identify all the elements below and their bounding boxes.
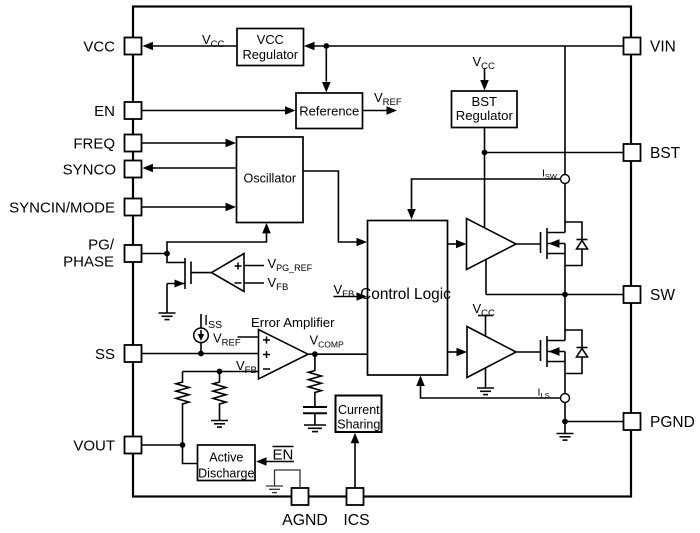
wire Control Logic to high-side driver (448, 243, 457, 245)
pin SYNCIN/MODE (9, 199, 141, 217)
current sense ILS circle (561, 394, 570, 403)
arrow EN-bar into Active Discharge right edge (256, 457, 267, 466)
wire capacitor to ground (314, 413, 316, 425)
pin BST (624, 144, 681, 162)
wire PGND node to PGND pin (565, 421, 624, 423)
arrow into Reference top (322, 82, 331, 93)
svg-text:Error Amplifier: Error Amplifier (251, 315, 335, 330)
minus mark PG comparator (235, 282, 242, 284)
pin EN (94, 102, 141, 120)
node junction VFB divider (217, 369, 223, 375)
svg-text:Active: Active (209, 451, 243, 465)
overline EN-bar (273, 446, 294, 448)
svg-text:VOUT: VOUT (73, 438, 115, 455)
pin FREQ (73, 135, 141, 153)
wire VOUT pin to feedback node (142, 444, 183, 446)
svg-text:Control Logic: Control Logic (360, 286, 451, 303)
svg-text:Sharing: Sharing (337, 418, 380, 432)
op-amp PG comparator (points left) (212, 254, 245, 292)
block Control Logic (360, 221, 451, 376)
node junction VIN/Reference (323, 43, 329, 49)
arrow ISW into Control Logic top (407, 209, 416, 220)
resistor feedback top (VFB to VOUT) (176, 372, 189, 446)
wire ILS circle to PGND node (564, 403, 566, 422)
supply bar VCC low-side (478, 315, 493, 317)
plus mark error amp top (263, 337, 270, 344)
resistor feedback bottom (VFB to GND) (213, 372, 226, 421)
arrow ICS into Current Sharing bottom (351, 433, 360, 444)
pin SYNCO (63, 161, 142, 179)
arrow low-side MOSFET body (549, 347, 560, 356)
current sense ISW circle (561, 175, 570, 184)
arrow inside ISS source (200, 330, 202, 336)
node junction SW (562, 292, 568, 298)
block Current Sharing (336, 396, 382, 433)
arrow into VCC pin (143, 42, 154, 51)
plus mark PG comparator (235, 263, 242, 270)
wire BST node to BST pin (485, 152, 624, 154)
wire VREF input stub to error amplifier (238, 336, 259, 338)
wire Control Logic to low-side driver (448, 351, 457, 353)
wire VOUT node to Active Discharge (183, 445, 198, 464)
svg-text:VIN: VIN (650, 39, 676, 56)
svg-text:AGND: AGND (282, 512, 328, 529)
IC boundary box (133, 7, 631, 497)
wire AGND pin to analog ground symbol (275, 470, 301, 488)
wire VCC into BST Regulator (484, 68, 486, 80)
arrow into Control Logic left (oscillator) (357, 238, 368, 247)
ground analog AGND (266, 486, 283, 493)
svg-text:FREQ: FREQ (73, 136, 115, 153)
wire SS pin to error amplifier (142, 353, 259, 355)
node junction VCOMP (312, 351, 318, 357)
minus mark error amp bottom (263, 368, 270, 370)
arrow PG MOSFET source (175, 280, 185, 288)
block Active Discharge (198, 445, 256, 481)
svg-text:Discharge: Discharge (198, 467, 254, 481)
ground PG MOSFET (159, 313, 176, 320)
svg-text:SYNCO: SYNCO (63, 162, 116, 179)
wire EN pin to Reference (142, 110, 286, 112)
wire PGND node down to ground (564, 422, 566, 434)
wire ILS feedback to Control Logic bottom (421, 386, 561, 398)
svg-text:BST: BST (471, 94, 497, 109)
block VCC Regulator (237, 29, 304, 66)
block BST Regulator (452, 91, 518, 128)
arrow into BST Regulator top (480, 80, 489, 91)
svg-text:Regulator: Regulator (243, 47, 299, 62)
block Reference (296, 93, 363, 129)
svg-text:SYNCIN/MODE: SYNCIN/MODE (9, 200, 115, 217)
transistor PG open-drain MOSFET (167, 254, 212, 314)
node junction PG (164, 251, 170, 257)
wire PG node up to Oscillator bottom (167, 233, 267, 254)
op-amp high-side gate driver (467, 219, 517, 270)
svg-text:VCC: VCC (83, 39, 115, 56)
wire VFB into Control Logic (334, 296, 358, 298)
arrow into SYNCO pin (143, 164, 154, 173)
arrow into Oscillator bottom (262, 223, 271, 234)
svg-text:EN: EN (94, 103, 115, 120)
wire ISS source to SS node (200, 343, 202, 354)
svg-text:Oscillator: Oscillator (244, 172, 296, 186)
current source ISS (194, 328, 209, 343)
pin VOUT (73, 437, 141, 455)
wire SYNCIN/MODE pin to Oscillator (142, 206, 227, 208)
arrow into Oscillator SYNCIN (226, 203, 237, 212)
svg-text:ICS: ICS (343, 512, 369, 529)
svg-text:SS: SS (95, 346, 115, 363)
op-amp low-side gate driver (467, 327, 516, 378)
wire VCOMP to Control Logic (308, 353, 368, 355)
svg-text:EN: EN (273, 447, 294, 464)
wire Reference output VREF (363, 110, 388, 112)
pin VCC (83, 38, 141, 56)
wire above ISS current source (200, 314, 202, 328)
ground power stage (557, 434, 574, 441)
node junction PGND (562, 419, 568, 425)
wire Oscillator to SYNCO pin (145, 167, 237, 169)
svg-text:PGND: PGND (650, 414, 695, 431)
arrow VREF output (387, 106, 398, 115)
wire Oscillator output to Control Logic (303, 171, 357, 242)
node junction BST (482, 150, 488, 156)
pin ICS (343, 488, 369, 529)
svg-text:VCC: VCC (257, 32, 284, 47)
resistor compensation (308, 354, 321, 406)
wire VIN to VCC Regulator (306, 45, 624, 47)
wire ICS pin to Current Sharing (354, 443, 356, 489)
diode high-side body diode (565, 222, 588, 266)
node junction VOUT/feedback (180, 442, 186, 448)
wire ISW circle to high-side drain (564, 184, 566, 233)
pin AGND (282, 488, 328, 529)
pin VIN (624, 38, 676, 56)
pin SW (624, 286, 676, 304)
wire low-side driver bottom to ground (485, 368, 487, 388)
pin SS (95, 345, 142, 363)
wire SW line (486, 294, 624, 296)
arrow into low-side driver (457, 348, 468, 357)
wire VCC bar to low-side driver top (485, 316, 487, 337)
wire junction down to Reference (325, 46, 327, 82)
wire VIN rail down to high-side drain (564, 46, 566, 175)
wire ISW feedback to Control Logic top (412, 179, 561, 209)
pin PGND (624, 413, 695, 431)
arrow into high-side driver (456, 240, 467, 249)
svg-text:SW: SW (650, 287, 675, 304)
wire VCC Regulator to VCC pin (145, 45, 238, 47)
capacitor compensation (303, 407, 327, 413)
wire VFB node line to error amp minus input (183, 371, 259, 373)
ground feedback divider (211, 421, 228, 428)
arrow into Oscillator FREQ (226, 139, 237, 148)
op-amp error amplifier (259, 330, 309, 380)
arrow VFB into Control Logic left (357, 292, 368, 301)
svg-text:PG/: PG/ (88, 237, 115, 254)
pin PG/PHASE (63, 237, 141, 271)
arrow into Reference left edge (285, 106, 296, 115)
wire low-side source down to ILS (564, 352, 566, 394)
block Oscillator (237, 137, 304, 223)
plus mark error amp middle (263, 351, 270, 358)
wire VFB input stub to PG comparator (244, 282, 264, 284)
arrow into VCC Regulator right edge (304, 42, 315, 51)
wire VPG_REF input stub (244, 265, 264, 267)
svg-text:Reference: Reference (299, 104, 359, 119)
wire EN-bar into Active Discharge (266, 461, 294, 463)
wire PG/PHASE pin to node (142, 253, 168, 255)
wire FREQ pin to Oscillator (142, 142, 227, 144)
transistor low-side MOSFET Q2 (516, 295, 565, 368)
svg-text:PHASE: PHASE (63, 254, 114, 271)
node junction SS/soft-start (198, 351, 204, 357)
arrow high-side MOSFET body (549, 239, 560, 248)
diode low-side body diode (565, 330, 588, 374)
ground low-side driver (477, 388, 494, 395)
svg-text:Current: Current (338, 403, 380, 417)
wire BST Regulator down to BST node (484, 128, 486, 228)
svg-text:Regulator: Regulator (456, 108, 514, 123)
wire high-side driver bottom to SW (485, 260, 487, 295)
ground compensation (304, 425, 326, 432)
transistor high-side MOSFET Q1 (516, 228, 565, 295)
svg-text:BST: BST (650, 145, 681, 162)
arrow ILS into Control Logic bottom (416, 376, 425, 387)
